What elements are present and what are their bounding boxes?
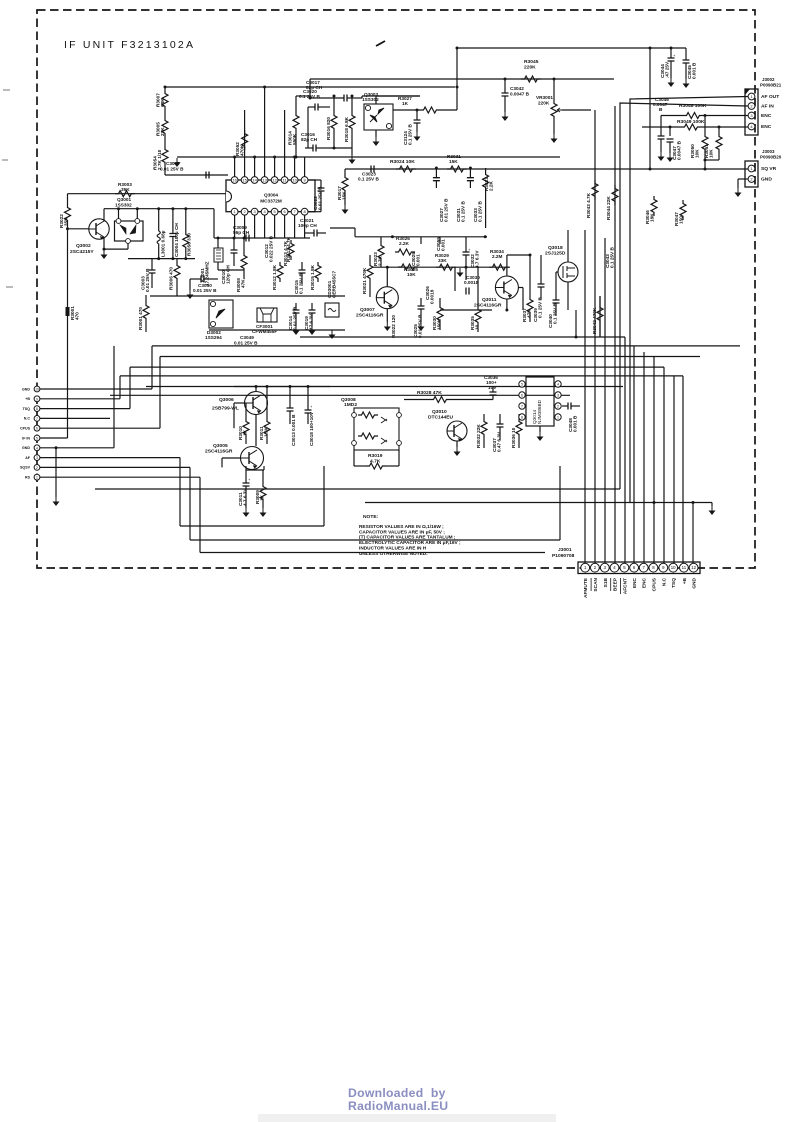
svg-text:11: 11 [682,565,687,570]
wire [284,215,286,238]
wire [274,157,276,177]
svg-text:R3036 10: R3036 10 [511,427,516,448]
ground [537,432,544,441]
wire [386,267,388,286]
ground [418,322,425,331]
pin 6 Q3004 [281,208,288,215]
svg-text:15: 15 [242,178,247,183]
svg-text:2SC4116GR: 2SC4116GR [205,449,233,455]
pin 1 Q3014 [555,414,561,420]
wire [375,130,377,137]
svg-text:C3013 0.001 B: C3013 0.001 B [291,414,296,446]
pin 5 Q3014 [519,381,525,387]
pin 1 Q3004 [231,208,238,215]
capacitor C3015 [294,262,306,294]
capacitor C3022 [313,180,325,212]
svg-text:Q3011: Q3011 [482,297,497,303]
svg-text:0.001: 0.001 [416,254,421,266]
svg-text:ENC: ENC [632,577,638,588]
resistor R3028 [404,390,493,403]
svg-text:R3016 820: R3016 820 [326,117,331,140]
svg-text:2.7K: 2.7K [378,255,383,266]
wire SQSV pin2 [40,466,190,468]
svg-text:R3043 4.7K: R3043 4.7K [586,192,591,218]
junction [263,86,266,89]
junction [416,109,419,112]
svg-text:470K: 470K [240,144,245,156]
svg-text:68K: 68K [160,98,165,107]
capacitor C3021 [298,218,326,237]
ground [373,137,380,146]
svg-text:12: 12 [272,178,277,183]
capacitor C3025b [391,315,396,338]
wire y337 [300,336,625,338]
junction [233,237,236,240]
wire +B pin9 [40,398,120,400]
resistor R3049 [642,119,748,130]
svg-text:R3044 22K: R3044 22K [606,196,611,220]
svg-text:0.1 25V B: 0.1 25V B [610,247,615,268]
pin 8 left connector [23,406,40,412]
wire [351,96,353,112]
resistor R3037 [522,290,533,322]
junction [504,78,507,81]
capacitor C3009 [233,225,250,242]
ground [502,112,509,121]
ground [457,268,464,277]
resistor R3050 [690,133,708,158]
resistor R3026 [395,236,415,255]
junction [649,47,652,50]
svg-text:1: 1 [557,416,559,420]
wire [380,262,382,267]
svg-text:GND: GND [22,387,30,391]
wire fan [614,106,616,563]
junction [465,266,468,269]
wire fan [594,110,596,563]
capacitor C3013b [287,395,297,446]
ground [101,250,108,259]
pin 1 J3003 [748,165,777,172]
wire bus [120,375,683,377]
svg-text:33K: 33K [438,258,447,263]
resistor R3042 [592,296,603,336]
svg-text:0.1 25V B: 0.1 25V B [358,177,379,182]
svg-text:J3003: J3003 [762,149,775,154]
svg-text:C3018 100+10V: C3018 100+10V [309,411,314,446]
wire rail y268 [372,266,510,268]
svg-text:56p CH: 56p CH [233,230,250,235]
pin 1 J3002 [748,93,779,100]
svg-text:5: 5 [521,383,523,387]
resistor R3056 [183,209,192,259]
resistor R3001 470 (on IF IN line) [66,306,80,320]
svg-text:0.1 25V B: 0.1 25V B [408,124,413,145]
svg-text:CPUS: CPUS [20,427,31,431]
svg-text:82p CH: 82p CH [306,85,323,90]
svg-text:MC3372M: MC3372M [260,199,282,204]
resistor R3022 [59,194,71,229]
wire [307,107,309,148]
svg-text:0.1 25V B: 0.1 25V B [299,273,304,294]
ground [454,447,461,456]
wire [55,448,57,497]
transistor Q3018 2SJ125D [545,245,578,282]
wire [539,426,541,432]
pin 7 Q3014 [519,403,525,409]
wire [255,414,257,446]
svg-text:100p CH: 100p CH [298,223,317,228]
svg-text:10K: 10K [709,149,714,158]
wire [263,466,265,470]
pin 10 left connector [22,386,40,392]
wire V x457 [456,48,458,110]
svg-text:0.1 25V B: 0.1 25V B [553,303,558,324]
ground [309,326,316,335]
svg-text:C3042: C3042 [510,86,524,91]
capacitor C3027 [433,168,449,222]
resistor R3047 [674,200,686,226]
wire rail y386b [234,386,330,388]
wire [222,457,240,459]
ground [551,134,558,143]
ground [667,153,674,162]
svg-text:10: 10 [475,324,480,330]
pin 8 Q3014 [519,414,525,420]
ground [342,205,349,214]
capacitor C3049 label [234,335,258,346]
resistor R3034 [489,249,509,270]
junction [575,336,578,339]
svg-text:0.001 B: 0.001 B [692,62,697,79]
connector J3002 P0090B21 [745,77,782,135]
svg-text:ENC: ENC [642,577,648,588]
capacitor C3007 [160,161,209,179]
svg-text:N.C: N.C [661,577,667,586]
capacitor C3124 [403,110,421,145]
wire [274,215,276,238]
wire [333,96,335,112]
edge tick [6,286,13,288]
svg-text:IF IN: IF IN [22,436,30,440]
svg-text:7: 7 [36,417,38,421]
svg-text:P1090708: P1090708 [552,553,575,559]
capacitor C3026 [425,286,435,304]
wire [295,96,297,112]
resistor R3029 [435,253,456,270]
svg-text:0.1 25V B: 0.1 25V B [538,297,543,318]
pin 4 J3002 [748,123,772,130]
svg-text:0.47 6.3V: 0.47 6.3V [497,431,502,452]
ground [658,152,665,161]
wire [164,87,166,90]
ground [329,330,336,339]
diode Q3003 1SS302 [362,92,393,130]
svg-text:2.2K: 2.2K [399,241,410,246]
svg-text:AF OUT: AF OUT [761,94,779,100]
svg-text:INDUCTOR VALUES ARE IN H: INDUCTOR VALUES ARE IN H [359,545,427,551]
wire rail y296 [150,295,345,297]
wire [353,450,355,466]
wire [264,215,266,238]
wire [254,215,256,238]
resistor R3018 [344,112,355,142]
diode D3002 1SS294 [205,300,233,340]
svg-text:3: 3 [36,456,38,460]
svg-text:P0090B21: P0090B21 [760,83,782,88]
pin 1 left connector [25,474,40,480]
svg-text:6: 6 [521,394,523,398]
pin 7 left connector [24,416,40,422]
pin 5 Q3004 [271,208,278,215]
ground [293,326,300,335]
wire [693,502,712,504]
svg-text:0.1 25V B: 0.1 25V B [478,201,483,222]
svg-text:RS: RS [25,476,31,480]
capacitor C3025c [413,298,425,338]
capacitor C3003 [141,259,156,292]
svg-text:NJM386BD: NJM386BD [537,399,542,424]
capacitor C3032 [463,245,480,268]
wire y48 [457,47,686,49]
svg-text:2.2M: 2.2M [492,254,503,259]
svg-text:0.022 25V B: 0.022 25V B [269,235,274,262]
pin 2 J3002 [748,103,774,110]
svg-text:2SJ125D: 2SJ125D [545,251,566,257]
pin 9 Q3004 [301,177,308,184]
svg-text:R3048 100K: R3048 100K [679,103,707,109]
svg-text:10: 10 [35,388,39,392]
svg-text:0.01 25V B: 0.01 25V B [418,314,423,338]
wire [164,166,166,175]
wire [456,441,458,447]
wire H1 [165,86,455,88]
junction [435,167,438,170]
svg-text:TSQ: TSQ [23,407,31,411]
wire [294,157,296,177]
wire [454,267,456,291]
svg-text:IF UNIT F3213102A: IF UNIT F3213102A [64,39,195,51]
resistor R3001 [138,295,149,332]
svg-text:R3006 470: R3006 470 [169,267,174,290]
svg-text:S1B: S1B [603,577,609,587]
wire SQ VR bus y169 [345,168,748,170]
ground [349,155,356,164]
svg-text:CERB455C7: CERB455C7 [332,271,337,298]
capacitor C3019 [304,303,316,330]
resistor R3044 [606,185,618,220]
pin 1 J3001 [581,563,590,598]
svg-text:R3022 120: R3022 120 [391,315,396,338]
wire [344,194,346,205]
pin 15 Q3004 [241,177,248,184]
svg-text:120p CH: 120p CH [226,265,231,284]
junction [704,114,707,117]
transistor Q3005 2SC4116GR [241,447,264,470]
resistor R3045 [521,59,541,82]
inductor L3001 [157,209,165,259]
capacitor C3050 [190,276,218,294]
wire AF pin3 [40,457,180,459]
ground [735,188,742,197]
transistor Q3006 2SB799-WL [245,392,268,415]
diode Q3001 1SS302 [115,197,144,243]
svg-text:TSQ: TSQ [671,578,677,588]
svg-text:0.1 25V B: 0.1 25V B [461,201,466,222]
svg-text:1K: 1K [243,429,248,436]
wire [540,255,542,276]
transistor Q3002 2SC4215Y [89,219,109,240]
resistor R3011 [259,414,270,444]
resistor R3014 [288,112,300,145]
svg-text:Q3007: Q3007 [360,307,375,313]
wire [294,215,296,238]
svg-text:82p CH: 82p CH [301,137,318,142]
op-amp U Q3004 MC3372M [226,180,315,212]
svg-text:16: 16 [232,178,237,183]
svg-text:(T) CAPACITOR VALUES ARE TANTA: (T) CAPACITOR VALUES ARE TANTALUM ; [359,535,456,541]
resistor R3025 [398,264,418,277]
wire fan [624,337,626,563]
svg-text:35K: 35K [64,217,69,226]
svg-text:0.0018: 0.0018 [464,280,479,285]
edge tick [3,89,10,91]
capacitor C3047 [658,136,682,160]
resistor R3007 [156,90,169,110]
svg-text:0.0047 B: 0.0047 B [677,140,682,160]
resistor R3015 [310,262,321,290]
wire [386,309,388,322]
capacitor C3025a [411,252,421,266]
resistor R3013b [286,236,291,262]
resistor R3048 [661,103,748,119]
wire [660,116,662,137]
svg-text:47 6.3V: 47 6.3V [309,313,314,330]
pin 11 Q3004 [281,177,288,184]
resistor R3023 [373,237,384,266]
wire [68,193,227,195]
wire [244,110,246,130]
capacitor C3036 [484,375,498,400]
pin 4 Q3004 [261,208,268,215]
svg-text:RESISTOR VALUES ARE IN Ω,1/16: RESISTOR VALUES ARE IN Ω,1/16W ; [359,524,444,530]
svg-text:0.01 25V B: 0.01 25V B [145,268,150,292]
connector J3001 P1090708 [552,547,700,574]
wire fan [673,376,675,563]
wire [738,178,748,180]
pin 4 Q3014 [555,381,561,387]
wire bus y157 [177,156,560,158]
resistor R3003 [115,182,135,197]
wire [165,174,228,176]
wire [234,215,236,238]
transistor Q3007 2SC4116GR [376,287,398,309]
resistor R3008 [236,238,247,292]
wire [376,95,420,97]
svg-text:Q3018: Q3018 [548,245,563,251]
svg-text:9: 9 [36,397,38,401]
pin 9 J3001 [659,563,668,586]
wire [245,403,247,414]
edge tick [2,159,8,161]
svg-text:R3018 6.8K: R3018 6.8K [344,116,349,142]
resistor R3035 [470,300,481,332]
pin 13 Q3004 [261,177,268,184]
svg-text:R3012 1.8K: R3012 1.8K [272,264,277,290]
wire IF IN pin5 [40,437,68,439]
resistor R3013 [283,240,294,266]
svg-text:R3032 22K: R3032 22K [476,424,481,448]
pin 6 Q3014 [519,392,525,398]
wire [330,147,352,149]
wire [68,228,89,230]
svg-text:15K: 15K [342,191,347,200]
capacitor C3048 [562,403,580,433]
junction [295,156,298,159]
wire node y208.7 [104,208,214,210]
svg-text:UNLESS OTHERWISE NOTED.: UNLESS OTHERWISE NOTED. [359,551,428,557]
svg-text:Q3010: Q3010 [432,409,447,415]
wire [164,137,166,146]
svg-text:P0090B20: P0090B20 [760,155,782,160]
resistor R3027 [393,96,457,113]
IC Q3008 1MD2 [341,397,401,450]
wire GND pin10 [40,388,152,390]
wire [164,110,166,117]
svg-text:1SS302: 1SS302 [115,203,132,208]
capacitor C3014 [288,303,300,330]
wire [309,79,311,98]
junction [117,207,120,210]
wire [234,402,246,404]
svg-text:SQ VR: SQ VR [761,166,777,172]
wire AF IN [620,103,748,489]
junction [157,207,160,210]
capacitor C3012 [264,235,274,262]
svg-text:0.01 25V B: 0.01 25V B [160,167,184,172]
footer watermark [348,1087,448,1113]
pin 10 Q3004 [291,177,298,184]
svg-text:1K: 1K [402,101,409,106]
wire AF OUT [630,97,748,504]
svg-text:10: 10 [292,178,297,183]
wire [103,209,105,222]
wire [477,267,479,300]
pin 5 left connector [22,435,40,441]
pin 16 Q3004 [231,177,238,184]
wire bus [160,356,700,358]
junction [103,248,106,251]
pin 3 Q3004 [251,208,258,215]
wire [567,230,569,262]
crystal K3001 [200,238,223,286]
wire [323,466,325,526]
svg-text:Q3004: Q3004 [264,193,278,198]
pin 2 J3003 [748,176,772,183]
svg-text:J3001: J3001 [558,547,572,553]
svg-text:Q3005: Q3005 [213,443,228,449]
pin 8 Q3004 [301,208,308,215]
capacitor C3045 [683,48,697,79]
resistor R3031 [447,154,467,172]
svg-text:10K: 10K [695,149,700,158]
wire y502 [365,502,693,504]
capacitor C3016 [301,132,330,152]
svg-text:4: 4 [36,446,38,450]
svg-text:2SC4215Y: 2SC4215Y [70,249,94,255]
svg-text:R3019: R3019 [368,453,383,459]
svg-text:27K: 27K [160,127,165,136]
